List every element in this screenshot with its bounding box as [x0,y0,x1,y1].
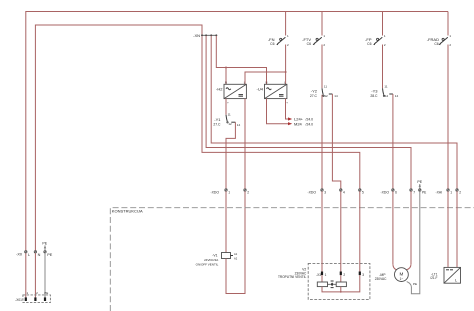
svg-text:ON/OFF VENTIL: ON/OFF VENTIL [196,263,219,267]
terminal -XDO:1 [211,189,231,195]
svg-text:-XDO: -XDO [381,190,390,194]
svg-text:27.C: 27.C [310,94,318,98]
svg-text:L: L [28,253,30,257]
wire N rail (neutral) inner border [35,25,202,251]
svg-text:PE: PE [422,190,426,194]
svg-text:12: 12 [385,94,389,98]
svg-text:C6: C6 [307,42,311,46]
svg-text:1: 1 [325,273,327,277]
svg-text:A2: A2 [234,256,238,260]
svg-text:-Y3: -Y3 [371,89,378,94]
svg-text:-Y2: -Y2 [311,89,318,94]
terminal -XDO:5 [359,189,364,195]
motor -MP [375,268,409,282]
svg-text:C6: C6 [434,42,438,46]
svg-text:6: 6 [395,190,397,194]
wire -Y3 14 to -XDO:6 [392,94,394,189]
breaker -FN [268,34,289,47]
svg-text:1: 1 [228,190,230,194]
wire -XAI:1 to -LT1 [447,191,449,267]
svg-text:2: 2 [459,190,461,194]
svg-text:N: N [38,253,41,257]
wire -H2 L-out down to -XDO:2 [244,99,246,189]
svg-text:C6: C6 [270,42,274,46]
wire drop to -FRAD [447,12,449,36]
wire -X0:N down to -X01:2 [34,253,36,297]
svg-text:KONSTRUKCIJA: KONSTRUKCIJA [112,209,143,214]
terminal -X3:1 [321,272,323,276]
wire -XDO:5 to valve terminal 3 [359,191,361,271]
svg-text:14: 14 [395,94,399,98]
svg-text:-H2: -H2 [216,87,223,92]
wire drop to -FP [382,12,384,36]
svg-text:3: 3 [324,190,326,194]
wire -FRAD output to -XAI:1 [447,45,449,189]
svg-text:4: 4 [343,190,345,194]
wire -FN output down to U4 L pin [285,72,287,84]
svg-text:PE: PE [42,241,47,245]
svg-text:7: 7 [413,190,415,194]
wire PE from -XDO:PE to motor [411,191,419,293]
wire drop to -FTV [321,12,323,36]
wire -X0:PE down to -X01:PE [44,253,46,297]
svg-text:1: 1 [450,190,452,194]
svg-text:-XN: -XN [193,33,200,38]
contact -Y3 [370,84,398,98]
svg-text:N: N [266,81,268,85]
wire -Y2 12 to -XDO:3 [321,95,323,189]
svg-text:M24: M24 [294,121,303,126]
svg-text:+: + [227,101,229,105]
svg-text:M: M [399,271,403,276]
svg-text:-X3: -X3 [316,273,321,277]
svg-text:PE: PE [44,291,48,295]
svg-text:14: 14 [334,94,338,98]
svg-text:N: N [225,81,227,85]
wire -XAI:2 to -LT1 [456,191,458,267]
wire -XDO:4 to valve terminal 2 [340,191,342,271]
svg-text:+: + [286,101,288,105]
dashed enclosure V2 valve [278,263,370,299]
svg-text:/21.F: /21.F [430,276,437,280]
wire -FN output to -H2 L and -U4 L [245,45,286,85]
svg-text:1: 1 [384,34,386,38]
wire drop to -FN [285,12,287,36]
svg-text:14: 14 [237,123,241,127]
svg-text:2: 2 [287,43,289,47]
svg-text:2: 2 [449,43,451,47]
terminal -XDO:2 [244,189,249,195]
svg-text:-X0: -X0 [16,253,22,257]
terminal -X0:N [34,251,40,258]
svg-text:230VAC: 230VAC [375,277,387,281]
breaker -FP [365,34,386,47]
terminal -X3:3 [359,272,361,276]
net arrow L24+ [288,117,292,120]
svg-text:2: 2 [343,273,345,277]
wire XN#3 to bus1 to -XAI:2 [211,36,457,189]
svg-text:24VDC/3A: 24VDC/3A [204,258,218,262]
wire valve coils return to terminal 3 [322,275,360,292]
terminal -XDO:6 [381,189,398,195]
wire -XDO:3 to valve terminal 1 [321,191,323,271]
terminal -X0:L [16,251,30,258]
terminal -XDO:4 [340,189,345,195]
svg-text:/24.0: /24.0 [306,118,314,122]
valve actuator linkage symbol [331,280,334,282]
KONSTRUKCIJA boundary dashed [110,208,474,311]
junction at FN split [285,71,287,73]
junction at H2 N branch [225,67,227,69]
terminal -XAI:2 [456,189,461,195]
svg-text:11: 11 [324,84,327,88]
svg-text:11: 11 [228,113,231,117]
power supply -H2 [216,81,246,99]
breaker -FRAD [427,34,452,47]
svg-text:-V1: -V1 [212,253,217,257]
terminal -XDO:PE [419,189,427,195]
valve coil 1 [321,275,323,282]
svg-text:12: 12 [228,122,232,126]
svg-text:12: 12 [324,94,328,98]
wire -H2 out to -Y1 common [225,99,227,115]
wire -Y2 14 to -XDO:4 [332,94,340,189]
svg-text:-X01: -X01 [15,298,22,302]
svg-text:-XAI: -XAI [436,190,443,194]
terminal -XDO:7 [410,189,415,195]
svg-text:A1: A1 [234,252,238,256]
power supply -U4 [257,81,287,99]
wire XN#4 neutral feed to -H2 and -U4 [216,36,266,85]
wire -XDO:7 to motor [410,191,412,264]
valve coil -V1 [196,252,238,267]
svg-text:28.C: 28.C [370,94,378,98]
wire -FP output to -Y3 [382,45,384,89]
wire L rail (phase) left border and top [26,12,448,251]
svg-text:PE: PE [417,180,422,184]
svg-text:1: 1 [27,291,29,295]
wire XN#1 to bus3 to -XDO:5 [202,36,360,189]
svg-text:2: 2 [384,43,386,47]
svg-text:-Y1: -Y1 [214,117,221,122]
terminal -XAI:1 [436,189,453,195]
wire -U4 plus out to L24 arrow [286,99,289,119]
net arrow M24 [288,122,292,125]
svg-text:PE: PE [47,253,53,257]
wire -Y1 14 output jog [226,122,235,189]
svg-text:/24.0: /24.0 [306,122,314,126]
terminal -X0:PE [44,251,53,258]
wire branch to -H2 N pin [225,68,227,85]
breaker -FTV [302,34,325,47]
contact -Y1 [213,113,240,127]
terminal strip -XN [193,33,217,38]
svg-text:1: 1 [287,34,289,38]
svg-text:-U4: -U4 [257,87,264,92]
level transmitter -LT1 [430,267,460,283]
wire -XDO:6 to motor [392,191,394,264]
plug terminal strip -X01 [15,291,50,303]
svg-text:1: 1 [323,34,325,38]
svg-text:1: 1 [449,34,451,38]
svg-text:1~: 1~ [400,277,404,281]
svg-text:2: 2 [323,43,325,47]
svg-text:11: 11 [384,84,387,88]
svg-text:27.C: 27.C [213,122,221,126]
svg-text:PE: PE [413,282,417,286]
wire -XDO:1 to -V1 [225,191,227,252]
terminal -XDO:3 [308,189,327,195]
valve coil 2 [340,275,342,282]
wire -X0:L down to -X01:1 [25,253,27,297]
terminal -X3:2 [340,272,342,276]
wire XN#2 to bus2 to -XDO:7 [206,36,411,189]
svg-text:TROPUTNI VENTIL: TROPUTNI VENTIL [278,275,307,279]
svg-text:C6: C6 [367,42,371,46]
svg-text:-XDO: -XDO [211,190,220,194]
svg-text:2: 2 [36,291,38,295]
wire -U4 minus out to M24 arrow [267,99,289,124]
svg-text:2: 2 [247,190,249,194]
wire -V1 return to -XDO:2 [226,191,245,293]
svg-text:3: 3 [362,273,364,277]
svg-text:-XDO: -XDO [308,190,317,194]
svg-text:L: L [455,277,458,282]
wire -FTV output to -Y2 [321,45,323,89]
contact -Y2 [310,84,338,98]
svg-text:5: 5 [362,190,364,194]
